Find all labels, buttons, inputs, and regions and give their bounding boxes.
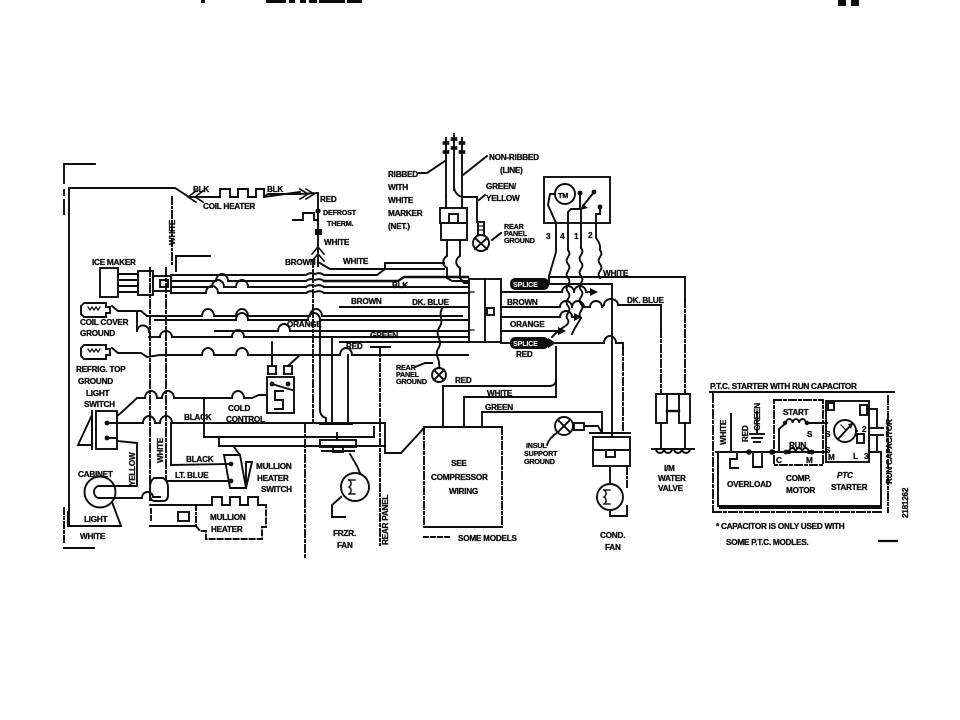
svg-text:DK. BLUE: DK. BLUE	[412, 298, 449, 307]
svg-text:WHITE: WHITE	[324, 238, 350, 247]
svg-text:VALVE: VALVE	[658, 484, 684, 493]
svg-text:BLACK: BLACK	[184, 413, 212, 422]
cold control left wire	[244, 395, 266, 398]
svg-text:GREEN/: GREEN/	[486, 182, 517, 191]
timer wire D S-curves	[599, 250, 602, 278]
svg-text:COIL COVER: COIL COVER	[80, 318, 129, 327]
coil cover ground connector	[81, 303, 110, 317]
svg-text:YELLOW: YELLOW	[486, 194, 520, 203]
bus y307 brown	[340, 306, 468, 308]
bus y317	[501, 316, 560, 318]
freezer fan wires down	[320, 320, 326, 424]
bus y337	[137, 325, 149, 332]
svg-text:ORANGE: ORANGE	[510, 320, 545, 329]
wire refrig ground to bus red y352	[112, 348, 202, 357]
inset bottom return wire	[718, 452, 881, 506]
svg-text:COND.: COND.	[600, 531, 625, 540]
wire icebus3	[171, 286, 212, 288]
svg-text:BROWN: BROWN	[351, 297, 382, 306]
mullion heater housing	[150, 505, 196, 526]
svg-text:(NET.): (NET.)	[388, 222, 410, 231]
capacitor	[867, 409, 883, 452]
svg-text:WHITE: WHITE	[343, 257, 369, 266]
plug block	[440, 208, 467, 240]
pointer line	[415, 363, 432, 367]
svg-text:BROWN: BROWN	[507, 298, 538, 307]
ice maker body	[100, 268, 118, 297]
svg-text:STARTER: STARTER	[831, 483, 868, 492]
coil heater element	[216, 189, 300, 197]
svg-text:(LINE): (LINE)	[500, 166, 523, 175]
svg-text:L: L	[853, 452, 858, 461]
splice 2	[511, 338, 556, 348]
svg-text:GROUND: GROUND	[80, 329, 115, 338]
wire coil cover drop	[136, 311, 138, 331]
ground stem	[478, 222, 484, 235]
svg-text:DK. BLUE: DK. BLUE	[627, 296, 664, 305]
svg-text:RED: RED	[320, 195, 337, 204]
svg-text:SWITCH: SWITCH	[261, 485, 292, 494]
svg-text:GREEN: GREEN	[485, 403, 513, 412]
svg-text:ORANGE: ORANGE	[287, 320, 322, 329]
water valve coils	[652, 423, 694, 453]
defrost thermostat	[293, 208, 322, 235]
svg-text:NON-RIBBED: NON-RIBBED	[489, 153, 539, 162]
label NON-RIBBED (LINE)	[463, 153, 539, 175]
svg-text:REAR PANEL: REAR PANEL	[381, 495, 390, 545]
svg-text:S: S	[807, 430, 813, 439]
insul support ground	[547, 417, 602, 445]
wire bus orange y331 right	[501, 330, 558, 332]
svg-text:RED: RED	[516, 350, 533, 359]
svg-text:2: 2	[862, 425, 867, 434]
wire coil cover to bus	[112, 306, 202, 316]
svg-text:RIBBED: RIBBED	[388, 170, 418, 179]
svg-text:* CAPACITOR IS ONLY USED WITH: * CAPACITOR IS ONLY USED WITH	[716, 522, 845, 531]
cold control top wires	[271, 342, 273, 366]
svg-text:SOME MODELS: SOME MODELS	[458, 534, 517, 543]
bus y331 orange	[215, 330, 278, 332]
comp motor dashed box	[774, 400, 823, 465]
svg-text:M: M	[806, 456, 813, 465]
cond fan motor	[597, 466, 627, 516]
cabinet light	[78, 470, 116, 524]
rear panel ground symbol top	[473, 235, 489, 251]
lt blue connector	[150, 478, 168, 501]
svg-text:MULLION: MULLION	[210, 513, 246, 522]
label RIBBED WITH WHITE MARKER (NET.)	[388, 161, 445, 231]
overload	[730, 452, 738, 468]
svg-text:2: 2	[588, 231, 593, 240]
svg-text:SPLICE: SPLICE	[513, 339, 538, 348]
svg-text:DEFROST: DEFROST	[323, 208, 357, 217]
wire splice2 to red bus right	[501, 342, 511, 344]
svg-text:C: C	[776, 456, 782, 465]
timer wire C S-curves	[572, 248, 582, 334]
PTC starter box	[826, 401, 869, 462]
bus y316 with hops	[202, 309, 462, 316]
svg-text:WHITE: WHITE	[719, 419, 728, 445]
wire lt blue to switch	[168, 480, 229, 482]
bottom-left bracket	[64, 508, 94, 548]
ice maker wires to connector	[118, 274, 138, 292]
wire icebus2	[171, 280, 216, 282]
legend some models	[424, 536, 452, 538]
svg-text:BROWN: BROWN	[285, 258, 316, 267]
svg-text:GREEN: GREEN	[370, 331, 398, 340]
wire white below defrost	[317, 235, 319, 266]
PTC internal wires	[856, 430, 857, 432]
svg-text:ICE MAKER: ICE MAKER	[92, 258, 136, 267]
power cord prongs	[445, 134, 464, 196]
svg-text:3: 3	[546, 232, 551, 241]
svg-text:COLD: COLD	[228, 404, 251, 413]
bus y320	[155, 319, 236, 321]
top wire BLK to coil heater	[69, 188, 216, 197]
cabinet light white triangle	[68, 502, 121, 526]
svg-text:GROUND: GROUND	[504, 236, 535, 245]
svg-text:4: 4	[560, 232, 565, 241]
svg-text:I/M: I/M	[664, 464, 675, 473]
wire icebus4	[171, 292, 206, 294]
cond fan box	[593, 437, 630, 466]
svg-text:COIL HEATER: COIL HEATER	[203, 202, 255, 211]
svg-text:OVERLOAD: OVERLOAD	[727, 480, 772, 489]
svg-text:GROUND: GROUND	[396, 377, 427, 386]
svg-text:RED: RED	[741, 425, 750, 442]
svg-text:2181262: 2181262	[901, 487, 910, 518]
svg-text:SEE: SEE	[451, 459, 467, 468]
svg-text:WHITE: WHITE	[168, 219, 177, 245]
svg-text:WHITE: WHITE	[156, 437, 165, 463]
splice 1	[511, 279, 548, 289]
svg-text:BLACK: BLACK	[186, 455, 214, 464]
svg-text:REFRIG. TOP: REFRIG. TOP	[76, 365, 126, 374]
wire yellow to lamp	[116, 485, 137, 487]
svg-text:LIGHT: LIGHT	[86, 389, 110, 398]
dashed return below heater	[196, 505, 266, 539]
svg-text:3: 3	[864, 452, 869, 461]
svg-text:TM: TM	[558, 191, 568, 200]
svg-text:SWITCH: SWITCH	[84, 400, 115, 409]
ice maker connector	[138, 271, 171, 295]
light switch	[78, 389, 117, 449]
svg-text:YELLOW: YELLOW	[128, 452, 137, 486]
svg-text:BLK: BLK	[267, 185, 283, 194]
red label tick	[371, 346, 390, 348]
svg-text:WATER: WATER	[658, 474, 686, 483]
svg-text:COMPRESSOR: COMPRESSOR	[431, 473, 488, 482]
junction dots	[746, 449, 814, 455]
inset main wire	[731, 414, 827, 452]
green ground symbol inset	[750, 412, 764, 442]
svg-text:WIRING: WIRING	[449, 487, 478, 496]
rear panel dash line left	[304, 425, 306, 560]
svg-text:SPLICE: SPLICE	[513, 280, 538, 289]
timer contacts	[548, 190, 602, 223]
svg-text:*: *	[885, 418, 894, 422]
water valve	[656, 394, 690, 423]
wire L above connector	[176, 256, 210, 271]
svg-text:THERM.: THERM.	[327, 219, 354, 228]
wire to defrost, arrow right	[264, 193, 318, 211]
rear panel ground mid stem	[437, 307, 443, 368]
timer wire B S-curves	[552, 250, 569, 337]
freezer fan bracket	[320, 424, 356, 452]
svg-text:SOME P.T.C. MODLES.: SOME P.T.C. MODLES.	[726, 538, 808, 547]
bulkhead connector	[469, 279, 501, 342]
svg-text:PTC: PTC	[837, 471, 854, 480]
left vertical bus wire	[68, 188, 70, 526]
plug legs	[443, 240, 468, 283]
arrow chevrons left	[188, 191, 203, 202]
mullion heater element	[196, 497, 266, 505]
svg-text:MOTOR: MOTOR	[786, 486, 815, 495]
wire heater to white vertical	[150, 504, 153, 506]
svg-text:GROUND: GROUND	[524, 457, 555, 466]
rear panel ground symbol mid	[432, 368, 446, 382]
svg-text:M: M	[828, 453, 835, 462]
svg-text:WHITE: WHITE	[388, 196, 414, 205]
top-left corner bracket	[64, 164, 95, 214]
svg-text:RUN CAPACITOR: RUN CAPACITOR	[885, 419, 894, 484]
wire light switch lower to yellow	[107, 438, 137, 486]
svg-text:CONTROL: CONTROL	[226, 415, 265, 424]
wire light switch top to black bus	[107, 422, 143, 424]
svg-text:LT. BLUE: LT. BLUE	[175, 471, 209, 480]
refrig top ground connector	[81, 345, 110, 359]
svg-text:HEATER: HEATER	[257, 474, 289, 483]
mullion heater switch	[224, 447, 252, 488]
svg-text:GROUND: GROUND	[78, 377, 113, 386]
timer terminal wires	[549, 223, 600, 283]
svg-text:LIGHT: LIGHT	[84, 515, 108, 524]
vertical dash line WHITE top-left	[171, 197, 173, 264]
svg-text:START: START	[783, 408, 809, 417]
wire cold control lines A/B	[204, 398, 374, 437]
svg-text:RED: RED	[455, 376, 472, 385]
bus green y342	[340, 341, 468, 343]
svg-text:WHITE: WHITE	[80, 532, 106, 541]
cold control	[267, 366, 294, 413]
wire icebus1	[171, 263, 444, 275]
freezer fan motor	[332, 454, 369, 517]
wire bus y292 right	[501, 291, 562, 293]
top edge cut text fragments	[201, 0, 859, 6]
PTC terminals	[828, 403, 869, 462]
white vertical dash pair	[149, 268, 151, 503]
wire cabinet light to connector	[116, 492, 160, 498]
PTC inset border	[713, 394, 888, 512]
svg-text:MARKER: MARKER	[388, 209, 423, 218]
timer box	[544, 177, 610, 223]
green yellow wire	[454, 186, 477, 222]
cord to plug	[445, 196, 447, 208]
mullion heater switch black wire	[171, 423, 229, 465]
svg-text:FAN: FAN	[337, 541, 353, 550]
svg-text:MULLION: MULLION	[256, 462, 292, 471]
svg-text:COMP.: COMP.	[786, 474, 811, 483]
svg-text:FAN: FAN	[605, 543, 621, 552]
wire bus brown y307 right	[501, 306, 560, 308]
svg-text:WITH: WITH	[388, 183, 408, 192]
svg-text:1: 1	[574, 232, 579, 241]
svg-text:FRZR.: FRZR.	[333, 529, 356, 538]
wire splice1 right to cond fan	[548, 284, 612, 437]
svg-text:HEATER: HEATER	[211, 525, 243, 534]
svg-text:BLK: BLK	[193, 185, 209, 194]
svg-text:P.T.C. STARTER WITH RUN CAPACI: P.T.C. STARTER WITH RUN CAPACITOR	[710, 382, 857, 391]
compressor dashed box	[424, 427, 502, 527]
svg-text:BLK: BLK	[392, 281, 408, 290]
chevron up arrows	[312, 247, 324, 261]
